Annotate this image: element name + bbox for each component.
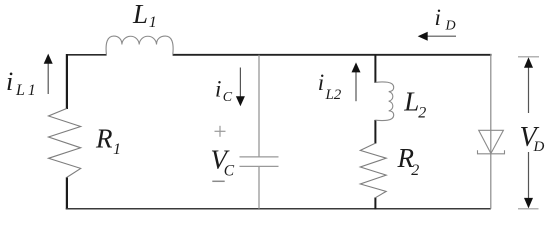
svg-text:D: D bbox=[445, 19, 456, 34]
inductor L2 bbox=[375, 82, 393, 121]
wire capacitor branch upper bbox=[258, 55, 260, 157]
current arrow iL2 bbox=[355, 71, 357, 102]
svg-text:C: C bbox=[224, 163, 235, 180]
wire capacitor branch lower bbox=[258, 166, 260, 208]
wire L2 branch top lead bbox=[374, 55, 376, 83]
svg-text:C: C bbox=[223, 90, 233, 105]
svg-text:1: 1 bbox=[113, 141, 121, 158]
svg-text:i: i bbox=[6, 67, 13, 96]
wire bottom rail bbox=[66, 208, 491, 210]
svg-text:D: D bbox=[533, 139, 545, 155]
svg-text:2: 2 bbox=[418, 105, 426, 122]
voltage arrow VD top tick bbox=[518, 56, 539, 58]
capacitor C plates bbox=[240, 156, 279, 158]
current arrow iL1 bbox=[47, 62, 49, 94]
wire top rail right of L1 bbox=[173, 54, 492, 56]
diode D1 bbox=[479, 130, 504, 153]
minus sign bbox=[212, 180, 224, 182]
wire diode branch vertical bbox=[490, 54, 492, 209]
wire top rail bbox=[66, 54, 107, 56]
svg-text:L: L bbox=[132, 0, 148, 29]
wire left vertical below R1 bbox=[66, 177, 68, 209]
svg-text:R: R bbox=[95, 124, 113, 154]
inductor L1 bbox=[106, 36, 173, 55]
svg-text:i: i bbox=[318, 70, 324, 95]
svg-text:1: 1 bbox=[28, 82, 36, 99]
current arrow iC bbox=[239, 68, 241, 99]
svg-text:L: L bbox=[15, 82, 25, 99]
resistor R1 bbox=[49, 109, 81, 178]
svg-text:L: L bbox=[325, 87, 334, 103]
svg-text:2: 2 bbox=[411, 162, 419, 179]
svg-text:i: i bbox=[435, 5, 441, 30]
wire below R2 bbox=[374, 198, 376, 210]
wire left vertical bbox=[66, 54, 68, 109]
plus sign bbox=[215, 130, 226, 132]
svg-text:i: i bbox=[215, 76, 221, 101]
current arrow iD bbox=[424, 35, 456, 37]
resistor R2 bbox=[360, 143, 386, 198]
svg-text:L: L bbox=[403, 87, 419, 117]
voltage arrow VD shaft lower bbox=[528, 152, 530, 200]
voltage arrow VD bottom tick bbox=[518, 208, 539, 210]
svg-text:2: 2 bbox=[334, 87, 342, 103]
voltage arrow VD shaft upper bbox=[528, 66, 530, 113]
wire between L2 and R2 bbox=[374, 120, 376, 144]
svg-text:1: 1 bbox=[149, 14, 157, 31]
